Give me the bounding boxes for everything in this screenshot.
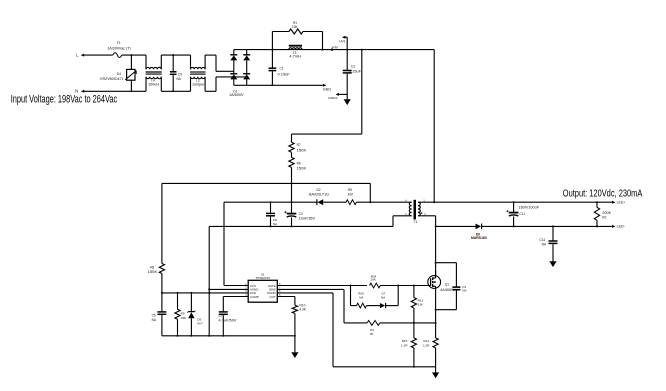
svg-text:160V/100uF: 160V/100uF [519,206,540,210]
wire output bottom line to D6 [436,225,476,227]
net flag +HV [329,48,332,51]
svg-text:NA: NA [381,296,385,300]
wire pin2 AGND [209,288,248,290]
capacitor C11 [513,202,515,212]
wire D6 to LED- terminal [482,225,612,227]
svg-text:R6: R6 [297,161,301,165]
wire pin3 ZCD [162,292,248,294]
wire pin4 COMP [223,296,248,298]
op-amp U1 controller [248,280,277,302]
wire power ground rail [333,366,436,368]
capacitor C7 [222,297,224,312]
wire pin8 gate line [277,285,367,287]
wire pin7 to current sense line [277,288,344,290]
svg-text:C7: C7 [219,314,223,318]
resistor R7 [291,134,293,142]
svg-text:51K: 51K [418,302,424,306]
svg-text:3K: 3K [370,332,374,336]
resistor R2 [596,202,598,207]
resistor R8 [159,264,164,274]
svg-text:R15: R15 [402,339,408,343]
wire bridge+ to HV [247,49,435,51]
zener diode D5 [190,293,192,312]
diode D7 [380,303,385,308]
svg-text:R9: R9 [181,311,185,315]
net flag LED+ [612,201,615,204]
svg-text:COMP: COMP [250,295,259,299]
svg-text:D4: D4 [117,72,121,76]
wire primary bottom to drain [421,215,435,217]
svg-text:+HV: +HV [331,46,338,50]
svg-text:10K: 10K [292,25,299,29]
svg-text:4.3K: 4.3K [299,308,306,312]
varistor D4 [130,55,132,69]
wire gate line to MOSFET [380,285,431,287]
wire HV down to primary top [433,50,435,203]
wire aux return jog to transformer [392,216,394,227]
resistor R24 [370,283,381,288]
wire aux line [224,201,317,203]
inductor L1 [289,45,302,47]
net flag LED- [612,225,615,228]
svg-text:C5: C5 [152,314,156,318]
capacitor C2 [346,50,348,70]
svg-text:BAV20LT1G: BAV20LT1G [309,192,330,196]
svg-text:0.15uF: 0.15uF [278,72,290,76]
svg-text:Input Voltage: 198Vac to 264Va: Input Voltage: 198Vac to 264Vac [11,93,118,105]
common-mode choke L4 [145,55,147,69]
svg-text:10K: 10K [348,192,355,196]
wire source to sense node [435,288,437,323]
svg-text:TPS92075: TPS92075 [255,276,270,280]
transformer T1 aux winding [409,202,411,216]
net stub HV1 [346,37,348,49]
capacitor C1 [271,50,273,68]
wire R8 top vertical [161,183,163,263]
svg-text:Output: 120Vdc, 230mA: Output: 120Vdc, 230mA [563,189,643,200]
common-mode choke L3 [190,55,192,69]
resistor R6 [289,157,294,167]
svg-text:MURS160: MURS160 [471,236,487,240]
transformer polarity dot [421,212,423,214]
wire sense line to source node [380,322,436,324]
wire pin1 VCC [224,285,248,287]
wire output top line [421,201,612,203]
svg-text:C2: C2 [351,64,355,68]
svg-text:GND: GND [323,88,332,92]
svg-text:150K: 150K [297,148,308,152]
resistor R10 [247,296,249,298]
capacitor C5 [161,293,163,311]
resistor R14 [435,323,437,338]
svg-text:200K: 200K [602,211,612,215]
svg-text:Q1: Q1 [445,282,449,286]
svg-text:ERZV500D471: ERZV500D471 [100,77,123,81]
resistor R5 [346,200,356,205]
svg-text:OUT: OUT [269,295,275,299]
capacitor C4 [291,183,293,213]
svg-text:GND1: GND1 [328,96,338,100]
bridge rectifier D1 [233,50,235,55]
svg-text:39K: 39K [181,316,187,320]
svg-text:R8: R8 [150,265,154,269]
svg-text:1A/600V: 1A/600V [229,93,245,97]
resistor R1 [271,32,273,50]
ground below R10 [291,352,298,358]
svg-text:1A/300Vac (T): 1A/300Vac (T) [107,47,131,51]
wire HV down to R7 chain [361,50,363,135]
wire bridge- GND rail [247,84,324,86]
svg-text:F1: F1 [117,41,121,45]
svg-text:T1: T1 [413,220,417,224]
transformer T1 primary winding [418,202,420,216]
net flag GND [323,84,326,87]
ground below C14 [549,261,556,267]
wire R25 to D7 [367,305,380,307]
wire R8 to ZCD node [161,274,163,293]
wire corner to aux line [369,183,371,202]
capacitor C14 [552,226,554,240]
transistor Q1 [428,276,441,289]
ground below C2 [344,99,351,105]
snubber capacitor C3 [436,262,457,264]
diode D6 [476,224,482,230]
svg-text:R7: R7 [297,143,301,147]
svg-text:4.7uF/50V: 4.7uF/50V [219,319,238,323]
svg-text:1.2R: 1.2R [423,343,430,347]
transformer T1 core [414,200,417,220]
svg-text:150K: 150K [148,270,159,274]
svg-text:C11: C11 [519,212,525,216]
wire analog ground rail [162,335,295,337]
net stub GND1 [337,93,347,95]
resistor R15 [413,323,415,338]
svg-text:NA: NA [359,296,363,300]
svg-text:C1: C1 [280,66,284,70]
svg-text:LED-: LED- [617,225,625,229]
svg-text:4V7: 4V7 [197,321,203,325]
snubber branch R25 D7 box [350,286,352,306]
svg-text:LED+: LED+ [617,200,626,204]
svg-text:10K: 10K [371,278,376,282]
svg-text:4.7mH: 4.7mH [289,55,301,59]
resistor R3 [367,321,380,326]
wire node A horizontal [162,182,370,184]
svg-text:R14: R14 [424,339,430,343]
resistor R25 [357,303,367,308]
svg-text:150K: 150K [297,166,308,170]
wire aux line left corner to VCC pin [223,202,225,285]
wire aux return rail [209,225,393,227]
svg-text:0.15uF: 0.15uF [349,70,361,74]
wire R5 to transformer aux pin [356,201,409,203]
wire current sense line [344,322,367,324]
wire pin6 PGND to power ground [277,292,333,294]
svg-text:1.2R: 1.2R [401,343,408,347]
wire N rail [84,90,146,92]
wire aux rail down to IC pin2 and ground [208,226,210,335]
wire D2 to R5 [323,201,346,203]
svg-text:C4: C4 [299,212,303,216]
svg-text:HV1: HV1 [339,40,345,44]
capacitor C9 [172,55,174,71]
wire L rail [84,54,113,56]
resistor R9 [177,293,179,309]
svg-text:10uF/35V: 10uF/35V [299,217,317,221]
svg-text:Jumper: Jumper [192,83,206,87]
resistor R13 [413,286,415,298]
capacitor C8 [270,202,272,213]
diode D2 [317,199,323,205]
svg-text:C14: C14 [539,238,545,242]
svg-text:100uH: 100uH [148,83,160,87]
ground power rail [435,367,437,373]
fuse F1 [113,53,122,58]
wire rails between L4 and C9 [161,54,190,56]
wire jog into bridge top [205,54,216,56]
wire jog into bridge bottom [205,90,216,92]
wire L rail to choke [122,54,146,56]
wire D7 to box corner [386,305,399,307]
svg-text:R2: R2 [602,215,606,219]
